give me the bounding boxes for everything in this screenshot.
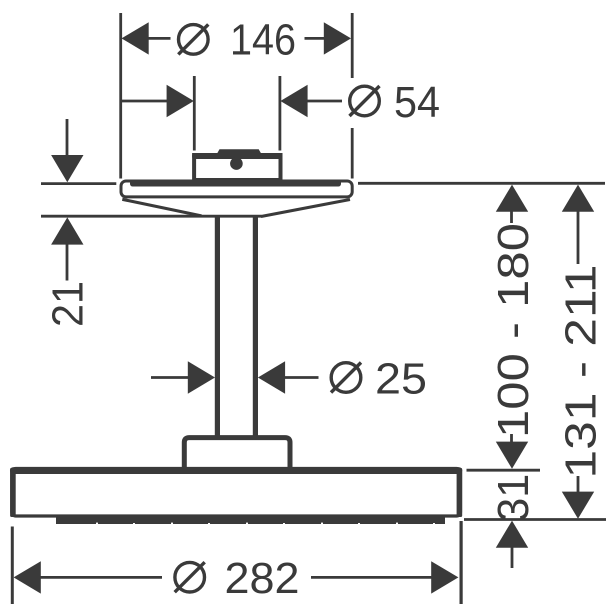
label D54 white halo [342, 78, 390, 128]
dimension 131-211 lower line [577, 476, 580, 493]
dimension 21 lower line [66, 242, 69, 281]
screw head dot [230, 157, 243, 170]
taper right slant [261, 200, 350, 217]
spray face nozzle gaps [96, 523, 435, 525]
taper left slant [122, 199, 201, 216]
spray face nozzle strip [56, 517, 445, 524]
ceiling line left segment [41, 182, 116, 185]
taper bottom / 21-extension line [41, 215, 262, 218]
dimension D54 right extension line [278, 76, 281, 151]
dimension 100-180 lower line [510, 434, 513, 446]
dimension D146 left arrow [122, 22, 149, 54]
dimension 100-180 top up arrow [496, 185, 528, 212]
disc right edge thick wall [457, 468, 463, 517]
wall flange plate outline [121, 181, 352, 197]
dimension 31 up arrow [496, 521, 528, 548]
svg-text:146: 146 [230, 16, 296, 65]
dimension 131-211 bottom down arrow [562, 492, 594, 519]
svg-text:25: 25 [375, 355, 427, 404]
svg-text:131 - 211: 131 - 211 [557, 265, 606, 479]
connector box thick top edge [192, 153, 282, 159]
shower head disc thick top edge [10, 467, 462, 474]
connector box outline [194, 155, 280, 180]
dimension D25 left leader line [151, 376, 190, 379]
connector box top tab [217, 149, 262, 154]
dimension D146 right line segment [305, 37, 326, 40]
dimension D25 right leader line [284, 376, 319, 379]
screw stem [233, 155, 240, 163]
dimension D146 right extension line [351, 13, 354, 179]
dimension D282 left extension line [11, 527, 14, 605]
dimension D282 left line segment [39, 576, 162, 579]
svg-text:282: 282 [225, 554, 300, 603]
dimension D54 left arrow [167, 85, 194, 117]
label D25 diameter symbol [331, 363, 361, 393]
dimension D282 left arrow [14, 561, 41, 593]
disc bottom extension line [464, 518, 606, 521]
dimension 100-180 upper line [510, 209, 513, 223]
shower arm block outline [184, 438, 290, 468]
disc left edge thick wall [10, 468, 16, 517]
dimension D25 left arrow [188, 361, 215, 393]
dimension 100-180 bottom down arrow [496, 442, 528, 469]
svg-text:31: 31 [489, 474, 538, 522]
dimension D146 left line segment [147, 37, 171, 40]
svg-text:54: 54 [394, 78, 440, 127]
svg-text:21: 21 [44, 281, 93, 327]
dimension 131-211 top up arrow [562, 185, 594, 212]
disc top extension line [467, 469, 541, 472]
shower head disc outline [12, 469, 461, 517]
dimension 21 upper line [66, 119, 69, 158]
dimension D282 right extension line [460, 521, 463, 604]
dimension D282 right line segment [311, 576, 433, 579]
dimension D54 left leader line [122, 100, 169, 103]
dimension 21 down arrow [51, 155, 83, 182]
dimension 131-211 upper line [577, 209, 580, 264]
dimension 21 up arrow [51, 217, 83, 244]
pipe right wall [253, 217, 258, 437]
pipe left wall [215, 217, 220, 437]
dimension D54 right leader line [306, 100, 343, 103]
label D282 diameter symbol [175, 562, 205, 592]
dimension D54 left extension line [193, 76, 196, 151]
wall flange plate thick top edge [130, 180, 341, 186]
dimension D282 right arrow [431, 561, 458, 593]
dimension 31 lower line [511, 545, 514, 569]
ceiling line right segment [358, 182, 605, 185]
dimension D146 left extension line [119, 13, 122, 179]
dimension D146 right arrow [324, 22, 351, 54]
dimension D25 right arrow [258, 361, 285, 393]
svg-text:100 - 180: 100 - 180 [489, 223, 538, 438]
label D54 diameter symbol [350, 86, 380, 116]
dimension D54 right arrow [280, 85, 307, 117]
label D146 diameter symbol [178, 24, 208, 54]
